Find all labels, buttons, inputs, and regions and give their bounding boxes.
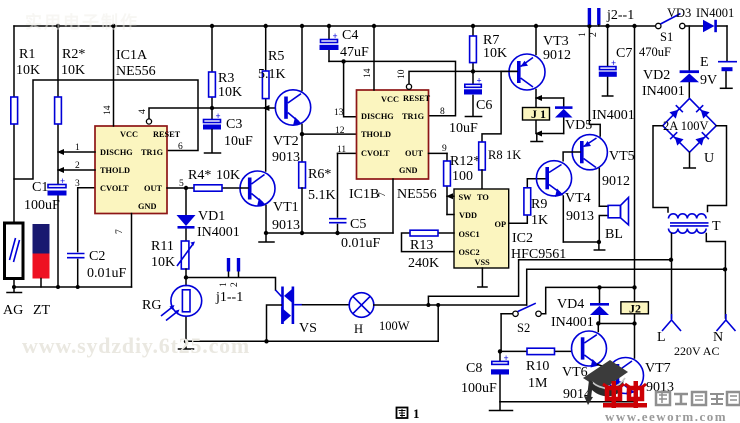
svg-text:VT5: VT5 (609, 149, 635, 164)
capacitor C1 100uF (24, 176, 67, 287)
svg-text:5.1K: 5.1K (258, 67, 286, 82)
plug N (674, 269, 736, 358)
wire S2 net to J2 (546, 285, 637, 314)
svg-text:1K: 1K (531, 213, 548, 228)
svg-text:VT3: VT3 (543, 34, 569, 49)
svg-text:220V AC: 220V AC (674, 344, 719, 358)
svg-text:10: 10 (397, 69, 407, 79)
svg-text:GND: GND (138, 202, 156, 211)
svg-text:1K: 1K (506, 148, 521, 162)
svg-text:OUT: OUT (405, 149, 423, 158)
wire J2 supply column (634, 26, 636, 287)
svg-text:R3: R3 (218, 71, 234, 86)
svg-text:1: 1 (413, 406, 420, 421)
svg-text:2: 2 (230, 282, 240, 287)
svg-text:240K: 240K (408, 256, 439, 271)
svg-text:IN4001: IN4001 (551, 315, 594, 330)
svg-text:VD4: VD4 (557, 297, 584, 312)
svg-text:VCC: VCC (120, 130, 138, 139)
svg-text:VD3: VD3 (667, 6, 691, 20)
svg-text:14: 14 (363, 68, 373, 78)
svg-text:实用电子制作: 实用电子制作 (25, 12, 139, 32)
svg-text:3: 3 (75, 179, 80, 189)
diode VD3 IN4001 (667, 6, 734, 32)
svg-text:+: + (216, 111, 221, 121)
svg-text:R10: R10 (526, 359, 549, 374)
svg-text:7: 7 (378, 192, 388, 197)
svg-text:1: 1 (75, 143, 80, 153)
wire IC1A pin2 (57, 161, 95, 173)
svg-text:VS: VS (299, 321, 317, 336)
svg-text:THOLD: THOLD (361, 130, 391, 139)
bridge rectifier U 2A 100V (663, 98, 717, 168)
wire VT5 emitter column (589, 26, 600, 136)
wire VD4 J2 bottom link (596, 321, 637, 325)
svg-text:TR1G: TR1G (402, 112, 425, 121)
svg-text:+: + (477, 76, 482, 86)
wire IC1A GND pin7 (115, 214, 132, 288)
wire IC1B pin11 (337, 145, 357, 155)
svg-text:DISCHG: DISCHG (100, 148, 133, 157)
logo eeworm cap (583, 360, 628, 405)
svg-text:L: L (657, 330, 666, 345)
svg-text:9V: 9V (700, 73, 717, 88)
svg-text:www.eeworm.com: www.eeworm.com (605, 409, 727, 423)
svg-text:R9: R9 (531, 197, 547, 212)
svg-text:10K: 10K (218, 85, 242, 100)
logo eeworm url (605, 409, 727, 423)
wire IC1A pin1 (57, 143, 95, 155)
svg-text:ZT: ZT (33, 303, 51, 318)
watermark bottom left (22, 333, 250, 358)
svg-text:14: 14 (103, 105, 113, 115)
transistor VT6 9014 (562, 324, 618, 403)
svg-text:GND: GND (399, 166, 417, 175)
svg-text:12: 12 (335, 126, 345, 136)
diode VD5 IN4001 (555, 98, 635, 134)
svg-text:C2: C2 (89, 249, 105, 264)
wire IC1B pin8 number (440, 107, 445, 117)
svg-text:100uF: 100uF (461, 381, 497, 396)
resistor R6 (299, 132, 336, 233)
ground symbol below AG (7, 279, 22, 293)
wire rail2 (lamp to N) (527, 267, 728, 305)
touch plate AG (3, 223, 23, 318)
svg-text:10uF: 10uF (224, 134, 253, 149)
svg-text:C3: C3 (226, 117, 242, 132)
lamp H 100W (303, 293, 527, 336)
photoresistor RG (142, 278, 202, 342)
svg-text:10K: 10K (483, 46, 507, 61)
relay coil J1 (523, 95, 564, 137)
svg-text:9012: 9012 (602, 174, 630, 189)
svg-text:J2: J2 (629, 301, 641, 315)
resistor R9 1K (509, 179, 548, 228)
resistor R3 (209, 26, 243, 120)
wire IC1B pin12 (302, 126, 357, 136)
diode VD2 IN4001 (642, 26, 699, 99)
IC2 HFC9561 box (454, 189, 566, 268)
op-amp IC1A NE556 box (95, 48, 181, 214)
wire bottom rail (RG to lamp net) (179, 339, 439, 349)
svg-text:IC1A: IC1A (116, 48, 148, 63)
svg-text:0.01uF: 0.01uF (87, 266, 127, 281)
svg-text:NE556: NE556 (116, 64, 156, 79)
svg-text:OSC1: OSC1 (459, 230, 480, 239)
transformer T (653, 126, 727, 270)
svg-text:10K: 10K (216, 168, 240, 183)
svg-text:R8: R8 (488, 148, 503, 162)
resistor R12 (444, 153, 481, 214)
wire IC1B pin13 stair (334, 61, 357, 118)
svg-text:R4*: R4* (188, 168, 211, 183)
svg-text:VSS: VSS (475, 258, 491, 267)
svg-text:+: + (504, 353, 509, 363)
svg-text:RG: RG (142, 298, 161, 313)
svg-text:IN4001: IN4001 (696, 6, 734, 20)
wire IC1A pin3 (75, 179, 80, 189)
resistor R13 240K (402, 230, 455, 271)
resistor R5 (258, 26, 286, 171)
diode VD1 IN4001 (177, 190, 240, 241)
svg-text:11: 11 (337, 145, 346, 155)
connector j2--1 (578, 8, 634, 37)
ground IC2 VSS (478, 268, 487, 287)
svg-text:OP: OP (495, 220, 507, 229)
svg-text:100uF: 100uF (24, 198, 60, 213)
svg-text:SW: SW (459, 193, 473, 202)
svg-text:2A 100V: 2A 100V (663, 119, 709, 133)
svg-text:9: 9 (442, 144, 447, 154)
svg-text:C1: C1 (32, 180, 48, 195)
svg-text:1: 1 (219, 282, 229, 287)
transistor VT2 9013 (272, 26, 311, 165)
svg-text:4: 4 (138, 109, 148, 114)
wire rail1 (lamp to transformer secondary) (428, 258, 673, 305)
svg-text:N: N (713, 330, 723, 345)
ground VT4 emitter (563, 240, 604, 250)
svg-text:2: 2 (75, 161, 80, 171)
svg-text:R1: R1 (19, 47, 35, 62)
svg-text:R11: R11 (151, 239, 174, 254)
svg-text:C5: C5 (350, 217, 366, 232)
svg-text:9013: 9013 (272, 150, 300, 165)
logo eeworm chongchong (603, 381, 647, 408)
svg-text:j2--1: j2--1 (606, 8, 634, 23)
capacitor C8 100uF (461, 314, 509, 402)
svg-text:OUT: OUT (144, 184, 162, 193)
wire top supply rail (14, 24, 656, 28)
transistor VT4 9013 (536, 161, 594, 242)
switch S1 (656, 14, 685, 45)
capacitor C3 10uF (203, 111, 253, 153)
capacitor C6 10uF (449, 71, 492, 136)
wire lamp net to bottom rail (437, 305, 439, 341)
svg-text:VD1: VD1 (198, 209, 225, 224)
svg-text:J 1: J 1 (531, 107, 546, 121)
potentiometer R11 10K (151, 239, 195, 278)
svg-text:100: 100 (452, 169, 473, 184)
capacitor C7 (599, 26, 671, 96)
svg-text:H: H (354, 322, 363, 336)
resistor R1 (11, 26, 40, 223)
svg-text:470uF: 470uF (639, 45, 671, 59)
svg-text:IN4001: IN4001 (642, 84, 685, 99)
capacitor C5 0.01uF (329, 153, 381, 251)
watermark top (25, 12, 139, 32)
transistor VT5 9012 (563, 135, 635, 207)
resistor R4 (167, 168, 241, 191)
battery E 9V (700, 26, 737, 88)
capacitor C4 47uF (320, 26, 370, 61)
svg-text:VDD: VDD (459, 211, 477, 220)
svg-text:U: U (704, 151, 714, 166)
svg-text:2: 2 (589, 32, 599, 37)
wire IC1A VCC pin14 (103, 26, 114, 126)
svg-text:VT4: VT4 (565, 191, 591, 206)
wire bottom right rail (500, 401, 635, 403)
svg-text:BL: BL (605, 227, 623, 242)
svg-text:TO: TO (477, 193, 489, 202)
speaker BL (599, 197, 628, 242)
svg-text:C7: C7 (616, 46, 632, 61)
svg-text:CVOLT: CVOLT (100, 184, 129, 193)
svg-text:AG: AG (3, 303, 23, 318)
svg-text:T: T (712, 219, 721, 234)
relay coil J2 (621, 287, 649, 324)
wire TR1G net (pin6 to touch plate) (14, 80, 198, 179)
wire IC2 SW VDD to R12 (446, 193, 454, 214)
svg-text:100W: 100W (379, 319, 410, 333)
diode VD4 IN4001 (551, 287, 609, 330)
svg-text:www.sydzdiy.6t25.com: www.sydzdiy.6t25.com (22, 333, 250, 358)
ground rail mid (VT1 C5) (259, 231, 393, 242)
svg-text:+: + (60, 176, 65, 186)
logo eeworm site name (656, 392, 740, 405)
wire R8 net (VT3 base stair) (482, 71, 501, 142)
resistor R10 1M (500, 348, 572, 391)
transistor VT7 9013 (608, 324, 675, 402)
svg-text:10uF: 10uF (449, 121, 478, 136)
sensor ZT (33, 224, 51, 318)
svg-text:IC2: IC2 (512, 231, 533, 246)
svg-text:IN4001: IN4001 (197, 225, 240, 240)
svg-text:10K: 10K (61, 63, 85, 78)
svg-text:9012: 9012 (543, 48, 571, 63)
transistor VT3 9012 (501, 26, 571, 98)
resistor R8 1K (479, 142, 522, 189)
svg-text:IN4001: IN4001 (592, 108, 635, 123)
switch S2 (501, 303, 546, 335)
svg-text:IC1B: IC1B (349, 187, 379, 202)
svg-text:S2: S2 (517, 321, 530, 335)
wire IC1A pin5 number (179, 179, 184, 189)
svg-text:C8: C8 (466, 361, 482, 376)
svg-text:VT2: VT2 (273, 134, 299, 149)
svg-text:R5: R5 (268, 49, 284, 64)
resistor R2 (55, 26, 86, 185)
svg-text:RESET: RESET (153, 130, 181, 139)
svg-text:C4: C4 (342, 28, 358, 43)
wire IC1B VCC pin14 (363, 26, 374, 90)
svg-text:8: 8 (440, 107, 445, 117)
svg-text:VCC: VCC (381, 95, 399, 104)
svg-text:10K: 10K (16, 63, 40, 78)
ground below J1 (531, 134, 543, 142)
svg-text:j1--1: j1--1 (215, 290, 243, 305)
connector j1--1 (184, 258, 276, 305)
svg-text:OSC2: OSC2 (459, 248, 480, 257)
wire IC1B GND (392, 179, 394, 233)
svg-text:R2*: R2* (62, 47, 85, 62)
svg-text:VD5: VD5 (565, 118, 592, 133)
ground rail left (12, 285, 132, 289)
svg-text:R12*: R12* (450, 154, 480, 169)
wire IC1B RESET pin10 (397, 69, 518, 89)
svg-text:R13: R13 (410, 238, 433, 253)
ground below C8 (490, 402, 513, 411)
svg-text:DISCHG: DISCHG (361, 112, 394, 121)
svg-text:VD2: VD2 (643, 68, 670, 83)
svg-text:0.01uF: 0.01uF (341, 236, 381, 251)
svg-text:RESET: RESET (403, 94, 431, 103)
svg-text:1: 1 (578, 32, 588, 37)
wire IC1B OUT pin9 (429, 144, 448, 154)
wire IC1A RESET pin4 (138, 108, 275, 124)
svg-text:13: 13 (334, 108, 344, 118)
svg-text:CVOLT: CVOLT (361, 149, 390, 158)
svg-text:VT7: VT7 (645, 361, 671, 376)
svg-text:1M: 1M (528, 376, 548, 391)
timer IC1B NE556 box (349, 90, 437, 202)
svg-text:7: 7 (115, 229, 125, 234)
svg-text:47uF: 47uF (340, 45, 369, 60)
svg-text:C6: C6 (476, 98, 492, 113)
svg-text:E: E (700, 55, 709, 70)
resistor R7 (470, 26, 508, 71)
svg-text:9013: 9013 (566, 209, 594, 224)
wire IC1A pin6 number (178, 142, 183, 152)
svg-text:9013: 9013 (272, 218, 300, 233)
plug L (657, 260, 681, 345)
wire C4 to TR1G pin8 net (329, 59, 456, 116)
svg-text:VT1: VT1 (273, 200, 299, 215)
transistor VT1 9013 (240, 171, 300, 233)
caption 图1 (397, 406, 420, 421)
capacitor C2 0.01uF (67, 188, 127, 287)
svg-text:S1: S1 (660, 30, 673, 44)
svg-text:R6*: R6* (308, 167, 331, 182)
svg-text:+: + (333, 31, 338, 41)
svg-text:NE556: NE556 (397, 187, 437, 202)
svg-text:TR1G: TR1G (141, 148, 164, 157)
svg-text:10K: 10K (151, 255, 175, 270)
svg-text:6: 6 (178, 142, 183, 152)
svg-text:THOLD: THOLD (100, 166, 130, 175)
svg-text:5.1K: 5.1K (308, 188, 336, 203)
triac VS (267, 287, 317, 342)
